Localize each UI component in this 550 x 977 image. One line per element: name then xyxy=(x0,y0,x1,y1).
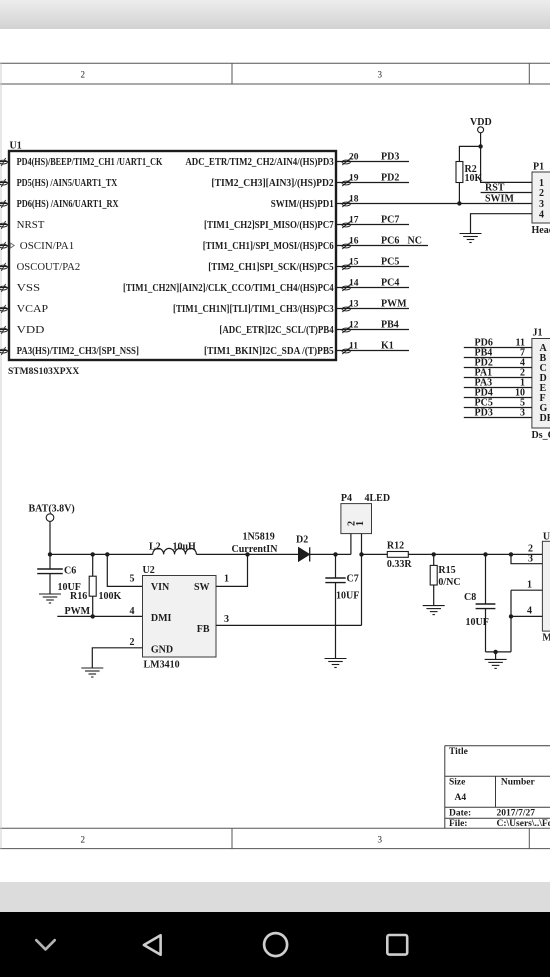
J1 pin 10 wire net PD4 xyxy=(464,388,532,399)
svg-text:[TIM2_CH1]SPI_SCK/(HS)PC5: [TIM2_CH1]SPI_SCK/(HS)PC5 xyxy=(208,262,333,273)
svg-text:OSCOUT/PA2: OSCOUT/PA2 xyxy=(17,262,81,273)
svg-text:5: 5 xyxy=(130,574,135,585)
ic U2 LM3410 xyxy=(143,565,217,671)
U1 clock mark OSCIN xyxy=(10,243,14,248)
wire U2 GND to ground xyxy=(92,648,142,668)
wire U2 SW up to rail xyxy=(216,554,248,586)
U1 pin 18 wire xyxy=(337,203,532,205)
svg-text:LM3410: LM3410 xyxy=(144,659,180,670)
svg-text:3: 3 xyxy=(539,199,544,210)
svg-text:0/NC: 0/NC xyxy=(438,577,460,588)
svg-text:SW: SW xyxy=(194,582,210,593)
svg-text:ADC_ETR/TIM2_CH2/AIN4/(HS)PD3: ADC_ETR/TIM2_CH2/AIN4/(HS)PD3 xyxy=(185,157,333,168)
wire VDD to R2 top xyxy=(459,146,480,161)
svg-text:Number: Number xyxy=(501,777,536,787)
U1 left pin name PA3(HS)/TIM2_CH3/[SPI_NSS] xyxy=(17,346,139,357)
U1 pin 17 wire xyxy=(337,224,409,226)
U3 pin2 number xyxy=(528,544,533,555)
capacitor C7 xyxy=(325,554,359,658)
svg-text:4: 4 xyxy=(130,606,135,617)
svg-text:PD5(HS) /AIN5/UART1_TX: PD5(HS) /AIN5/UART1_TX xyxy=(17,178,118,189)
U1 pin 19 marker xyxy=(342,179,352,187)
junction rail/pin3 xyxy=(509,552,513,556)
wire U3 pin4 xyxy=(511,615,542,617)
junction R2/SWIM xyxy=(457,201,461,205)
svg-text:R15: R15 xyxy=(438,565,455,576)
power VDD xyxy=(470,117,492,146)
U1 pin 16 marker xyxy=(342,242,352,250)
svg-text:3: 3 xyxy=(528,553,533,564)
svg-text:P1: P1 xyxy=(533,162,544,173)
wire rail P4 to R12 xyxy=(362,553,388,555)
svg-text:BAT(3.8V): BAT(3.8V) xyxy=(29,504,75,515)
U3 pin4 number xyxy=(527,606,532,617)
net label PD3 xyxy=(381,151,399,162)
resistor R16 xyxy=(70,554,122,616)
svg-text:PC6: PC6 xyxy=(381,235,399,246)
svg-text:PD3: PD3 xyxy=(381,151,399,162)
U1 right pin name ADC_ETR/TIM2_CH2/AIN4/(HS)PD3 xyxy=(185,157,333,168)
svg-text:PWM: PWM xyxy=(65,606,91,617)
svg-text:4: 4 xyxy=(527,606,532,617)
U1 pin 20 number xyxy=(349,152,359,162)
svg-text:C:\Users\..\Fou: C:\Users\..\Fou xyxy=(497,819,550,829)
svg-text:4LED: 4LED xyxy=(365,493,391,504)
wire gnd stem xyxy=(495,652,497,660)
J1 segment letter F xyxy=(540,393,546,404)
U1 right pin name SWIM/(HS)PD1 xyxy=(271,199,334,210)
svg-text:DMI: DMI xyxy=(151,613,172,624)
svg-text:Head: Head xyxy=(532,225,550,236)
U3 pin3 number xyxy=(528,553,533,564)
U1 right pin name [TIM1_CH1]/SPI_MOSI/(HS)PC6 xyxy=(203,241,334,252)
junction R16/PWM xyxy=(91,614,95,618)
title block text xyxy=(449,747,550,829)
net label PC6 xyxy=(381,235,399,246)
junction R15 tap xyxy=(432,552,436,556)
wire U3 pin1 xyxy=(511,589,542,591)
svg-text:3: 3 xyxy=(378,835,383,845)
J1 pin 7 wire net PB4 xyxy=(464,348,532,359)
svg-text:10K: 10K xyxy=(465,173,483,184)
svg-text:1: 1 xyxy=(224,573,229,584)
svg-text:15: 15 xyxy=(349,257,359,267)
U2 pin 2 number xyxy=(130,637,135,648)
U1 left pin name OSCOUT/PA2 xyxy=(17,262,81,273)
U1 left pin stub row 10 xyxy=(0,347,8,355)
connector J1 xyxy=(532,328,550,442)
U2 pin 5 number xyxy=(130,574,135,585)
svg-text:11: 11 xyxy=(349,341,358,351)
U1 pin 16 wire xyxy=(337,245,428,247)
wire pin1-pin4-bottom xyxy=(510,590,512,652)
svg-text:VIN: VIN xyxy=(151,582,170,593)
net label NC xyxy=(408,235,422,246)
ground R15 xyxy=(423,606,445,615)
wire PWM to U2 DMI xyxy=(57,615,142,617)
U1 left pin stub row 6 xyxy=(0,263,8,271)
ground U2 xyxy=(81,668,103,677)
U1 left pin name PD5(HS) /AIN5/UART1_TX xyxy=(17,178,118,189)
svg-text:Date:: Date: xyxy=(449,809,471,819)
svg-text:2: 2 xyxy=(539,188,544,199)
U1 pin 15 marker xyxy=(342,263,352,271)
svg-text:PC5: PC5 xyxy=(381,256,399,267)
net label K1 xyxy=(381,340,394,351)
P4 pin1 rotated digit xyxy=(355,521,366,526)
junction C8 tap xyxy=(483,552,487,556)
J1 segment letter A xyxy=(540,343,548,354)
wire U3 pin3 xyxy=(511,554,542,563)
J1 pin 1 wire net PA3 xyxy=(464,378,532,389)
svg-text:PD3: PD3 xyxy=(475,408,493,419)
svg-text:NC: NC xyxy=(408,235,422,246)
svg-text:1: 1 xyxy=(527,580,532,591)
wire RST to P1 pin2 xyxy=(481,192,532,194)
net label PC5 xyxy=(381,256,399,267)
inductor L2 xyxy=(153,548,197,554)
J1 segment letter B xyxy=(540,353,547,364)
U2 pin 4 number xyxy=(130,606,135,617)
net label PC4 xyxy=(381,277,399,288)
U1 pin 20 marker xyxy=(342,158,352,166)
U1 pin 20 wire xyxy=(337,161,409,163)
J1 pin 2 wire net PA1 xyxy=(464,368,532,379)
U1 right pin name [TIM1_CH2]SPI_MISO/(HS)PC7 xyxy=(204,220,334,231)
J1 pin 11 wire net PD6 xyxy=(464,338,532,349)
svg-text:0.33R: 0.33R xyxy=(387,559,413,570)
U1 pin 14 wire xyxy=(337,287,409,289)
U1 right pin name [TIM1_CH1N][TLI]/TIM1_CH3/(HS)PC3 xyxy=(173,304,334,315)
U1 pin 11 wire xyxy=(337,350,409,352)
diode D2 xyxy=(299,547,310,561)
svg-text:19: 19 xyxy=(349,173,359,183)
svg-text:SWIM/(HS)PD1: SWIM/(HS)PD1 xyxy=(271,199,334,210)
U1 pin 14 marker xyxy=(342,284,352,292)
capacitor C8 xyxy=(464,554,495,652)
sheet border bottom strip xyxy=(0,828,550,848)
U1 pin 13 number xyxy=(349,299,359,309)
svg-text:2: 2 xyxy=(130,637,135,648)
svg-text:PB4: PB4 xyxy=(381,319,399,330)
U1 pin 12 number xyxy=(349,320,359,330)
U1 pin 12 marker xyxy=(342,326,352,334)
junction BAT rail xyxy=(48,552,52,556)
svg-text:P4: P4 xyxy=(341,493,352,504)
svg-text:RST: RST xyxy=(485,182,505,193)
U1 pin 13 wire xyxy=(337,308,409,310)
svg-text:[TIM1_CH1N][TLI]/TIM1_CH3/(HS): [TIM1_CH1N][TLI]/TIM1_CH3/(HS)PC3 xyxy=(173,304,334,315)
junction R16 tap xyxy=(91,552,95,556)
junction SW/rail xyxy=(245,552,249,556)
J1 segment letter G xyxy=(540,403,548,414)
ground P1 xyxy=(460,234,482,243)
svg-text:10uH: 10uH xyxy=(173,541,197,552)
svg-text:12: 12 xyxy=(349,320,359,330)
svg-text:C7: C7 xyxy=(347,574,359,585)
U1 left pin stub row 7 xyxy=(0,284,8,292)
junction bottom gnd xyxy=(493,650,497,654)
svg-text:R16: R16 xyxy=(70,591,87,602)
svg-text:20: 20 xyxy=(349,152,359,162)
sheet border top strip xyxy=(0,63,550,84)
svg-text:[TIM1_CH1]/SPI_MOSI/(HS)PC6: [TIM1_CH1]/SPI_MOSI/(HS)PC6 xyxy=(203,241,334,252)
bottom gray strip xyxy=(0,882,550,912)
U1 pin 19 number xyxy=(349,173,359,183)
svg-text:PA3(HS)/TIM2_CH3/[SPI_NSS]: PA3(HS)/TIM2_CH3/[SPI_NSS] xyxy=(17,346,139,357)
net label PWM xyxy=(65,606,91,617)
svg-text:3: 3 xyxy=(520,408,525,419)
connector P4 4LED xyxy=(341,493,390,534)
svg-text:13: 13 xyxy=(349,299,359,309)
U2 pin 1 number xyxy=(224,573,229,584)
svg-text:PC7: PC7 xyxy=(381,214,399,225)
svg-text:16: 16 xyxy=(349,236,359,246)
U1 right pin name [TIM2_CH3][AIN3]/(HS)PD2 xyxy=(211,178,333,189)
U1 pin 15 number xyxy=(349,257,359,267)
svg-text:2: 2 xyxy=(81,70,86,80)
svg-text:[TIM2_CH3][AIN3]/(HS)PD2: [TIM2_CH3][AIN3]/(HS)PD2 xyxy=(211,178,333,189)
svg-text:GND: GND xyxy=(151,644,173,655)
svg-text:D2: D2 xyxy=(296,535,308,546)
net label PB4 xyxy=(381,319,399,330)
svg-text:A4: A4 xyxy=(455,793,467,803)
svg-text:1N5819: 1N5819 xyxy=(243,532,275,543)
ic U3 partial xyxy=(542,532,550,644)
net label CurrentIN xyxy=(232,544,279,555)
U1 left pin stub row 1 xyxy=(0,158,8,166)
resistor R15 xyxy=(430,554,460,605)
svg-text:U2: U2 xyxy=(143,565,155,576)
svg-text:C8: C8 xyxy=(464,592,476,603)
svg-text:[TIM1_CH2]SPI_MISO/(HS)PC7: [TIM1_CH2]SPI_MISO/(HS)PC7 xyxy=(204,220,334,231)
nav home circle xyxy=(264,933,287,956)
svg-text:10UF: 10UF xyxy=(336,591,359,602)
U1 pin 18 number xyxy=(349,194,359,204)
ground C8 xyxy=(485,659,507,668)
svg-text:PD4(HS)/BEEP/TIM2_CH1 /UART1_: PD4(HS)/BEEP/TIM2_CH1 /UART1_CK xyxy=(17,157,163,168)
svg-text:J1: J1 xyxy=(533,328,543,339)
J1 pin 4 wire net PD2 xyxy=(464,358,532,369)
title block xyxy=(445,746,550,829)
svg-text:Title: Title xyxy=(449,747,468,757)
U1 left pin stub row 8 xyxy=(0,305,8,313)
P4 pin2 rotated digit xyxy=(346,521,357,526)
U1 left pin stub row 4 xyxy=(0,221,8,229)
U1 right pin name [TIM2_CH1]SPI_SCK/(HS)PC5 xyxy=(208,262,333,273)
U1 left pin stub row 9 xyxy=(0,326,8,334)
nav chevron hide xyxy=(36,940,54,949)
nav back triangle xyxy=(144,935,161,954)
wire rail to U2 VIN xyxy=(107,554,142,586)
wire P4 pin2 down to rail xyxy=(350,534,352,555)
svg-text:PC4: PC4 xyxy=(381,277,399,288)
svg-text:K1: K1 xyxy=(381,340,394,351)
J1 segment letter C xyxy=(540,363,547,374)
wire R12 to U3 pin2 xyxy=(408,553,542,555)
J1 segment letter E xyxy=(540,383,547,394)
sheet left border xyxy=(0,63,2,848)
U1 right pin name [ADC_ETR]I2C_SCL/(T)PB4 xyxy=(219,325,333,336)
junction VIN tap xyxy=(105,552,109,556)
junction pin4 vertical xyxy=(509,614,513,618)
svg-text:[TIM1_CH2N][AIN2]/CLK_CCO/TIM1: [TIM1_CH2N][AIN2]/CLK_CCO/TIM1_CH4/(HS)P… xyxy=(123,283,334,294)
svg-text:100K: 100K xyxy=(99,591,122,602)
wire U2 FB to P4 pin1 xyxy=(216,624,362,626)
svg-text:[ADC_ETR]I2C_SCL/(T)PB4: [ADC_ETR]I2C_SCL/(T)PB4 xyxy=(219,325,333,336)
svg-text:C6: C6 xyxy=(64,566,76,577)
U1 left pin stub row 3 xyxy=(0,200,8,208)
junction C7 tap xyxy=(333,552,337,556)
svg-text:R12: R12 xyxy=(387,541,404,552)
svg-text:Ds_C: Ds_C xyxy=(532,430,550,441)
U1 left pin name OSCIN/PA1 xyxy=(20,241,74,252)
svg-text:M: M xyxy=(542,633,550,644)
U1 pin 16 number xyxy=(349,236,359,246)
svg-text:L2: L2 xyxy=(149,541,161,552)
svg-text:OSCIN/PA1: OSCIN/PA1 xyxy=(20,241,74,252)
U1 left pin stub row 2 xyxy=(0,179,8,187)
svg-text:17: 17 xyxy=(349,215,359,225)
svg-text:1: 1 xyxy=(355,521,366,526)
U1 pin 19 wire xyxy=(337,182,409,184)
U1 left pin name VDD xyxy=(17,325,45,336)
ground C7 xyxy=(325,659,347,668)
wire VDD to P1 pin1 xyxy=(481,146,532,182)
svg-text:PD6(HS) /AIN6/UART1_RX: PD6(HS) /AIN6/UART1_RX xyxy=(17,199,120,210)
svg-text:4: 4 xyxy=(539,210,544,221)
wire rail inductor to diode xyxy=(196,553,298,555)
svg-text:NRST: NRST xyxy=(17,220,45,231)
U2 pin 3 number xyxy=(224,614,229,625)
svg-text:U3: U3 xyxy=(543,532,550,543)
svg-text:VSS: VSS xyxy=(17,283,40,294)
wire P4 pin1 down to FB xyxy=(361,534,363,626)
U1 pin 13 marker xyxy=(342,305,352,313)
U1 pin 15 wire xyxy=(337,266,409,268)
net label RST xyxy=(485,182,505,193)
svg-text:PWM: PWM xyxy=(381,298,407,309)
svg-text:SWIM: SWIM xyxy=(485,194,514,205)
J1 segment letter DP xyxy=(540,413,550,424)
android nav bar xyxy=(0,912,550,977)
net label PD2 xyxy=(381,172,399,183)
wire R2 bottom to SWIM net xyxy=(458,183,460,204)
U1 pin 17 number xyxy=(349,215,359,225)
U1 left pin name VSS xyxy=(17,283,40,294)
L2 labels xyxy=(149,541,196,552)
U1 right pin name [TIM1_CH2N][AIN2]/CLK_CCO/TIM1_CH4/(HS)PC4 xyxy=(123,283,334,294)
svg-text:File:: File: xyxy=(449,819,467,829)
resistor R12 xyxy=(387,541,413,570)
svg-text:VCAP: VCAP xyxy=(17,304,49,315)
svg-text:VDD: VDD xyxy=(17,325,45,336)
U1 left pin name VCAP xyxy=(17,304,49,315)
U1 left pin name NRST xyxy=(17,220,45,231)
svg-text:3: 3 xyxy=(378,70,383,80)
wire diode to P4 xyxy=(310,553,351,555)
diode D2 label 1N5819 xyxy=(243,532,309,546)
U1 pin 12 wire xyxy=(337,329,409,331)
ground C6 xyxy=(39,594,61,603)
J1 segment letter D xyxy=(540,373,547,384)
U1 pin 11 number xyxy=(349,341,358,351)
svg-text:3: 3 xyxy=(224,614,229,625)
svg-text:Size: Size xyxy=(449,777,465,787)
resistor R2 xyxy=(456,162,483,184)
wire main rail left xyxy=(50,553,153,555)
svg-text:14: 14 xyxy=(349,278,359,288)
wire P1 pin4 to ground xyxy=(471,214,533,234)
svg-text:18: 18 xyxy=(349,194,359,204)
U3 pin1 number xyxy=(527,580,532,591)
svg-text:[TIM1_BKIN]I2C_SDA /(T)PB5: [TIM1_BKIN]I2C_SDA /(T)PB5 xyxy=(204,346,334,357)
net label SWIM xyxy=(485,194,514,205)
svg-text:STM8S103XPXX: STM8S103XPXX xyxy=(8,367,79,377)
U1 pin 18 marker xyxy=(342,200,352,208)
U1 pin 14 number xyxy=(349,278,359,288)
wire bottom gnd link xyxy=(486,651,512,653)
capacitor C6 xyxy=(37,554,81,594)
nav recents square xyxy=(387,935,407,955)
svg-text:2: 2 xyxy=(81,835,86,845)
U1 right pin name [TIM1_BKIN]I2C_SDA /(T)PB5 xyxy=(204,346,334,357)
U1 pin 11 marker xyxy=(342,347,352,355)
junction VDD node xyxy=(478,144,482,148)
U1 left pin stub row 5 xyxy=(0,242,8,250)
U1 left pin name PD6(HS) /AIN6/UART1_RX xyxy=(17,199,120,210)
svg-text:10UF: 10UF xyxy=(466,617,489,628)
U1 pin 17 marker xyxy=(342,221,352,229)
J1 pin 3 wire net PD3 xyxy=(464,408,532,419)
power BAT(3.8V) xyxy=(29,504,75,555)
svg-text:U1: U1 xyxy=(10,141,22,152)
svg-text:FB: FB xyxy=(197,624,210,635)
top gray toolbar xyxy=(0,0,550,29)
net label PC7 xyxy=(381,214,399,225)
svg-text:CurrentIN: CurrentIN xyxy=(232,544,279,555)
junction P4 pin1 / rail xyxy=(359,552,363,556)
J1 pin 5 wire net PC5 xyxy=(464,398,532,409)
svg-text:PD2: PD2 xyxy=(381,172,399,183)
net label PWM xyxy=(381,298,407,309)
U1 left pin name PD4(HS)/BEEP/TIM2_CH1 /UART1_CK xyxy=(17,157,163,168)
svg-text:2017/7/27: 2017/7/27 xyxy=(497,809,536,819)
ic U1 box xyxy=(9,151,336,360)
connector P1 xyxy=(532,162,550,237)
svg-text:DP: DP xyxy=(540,413,550,424)
